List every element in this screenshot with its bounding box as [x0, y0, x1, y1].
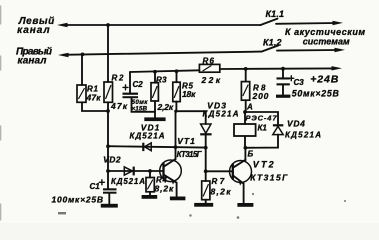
node C3 top [281, 67, 285, 71]
transistor VT1 [160, 160, 182, 182]
diode VD2 [124, 167, 132, 175]
wire VT1 emitter down [176, 183, 178, 197]
wire R3 bottom to ground [154, 101, 156, 117]
plus sign C2 [123, 85, 128, 90]
node R7 top [204, 169, 208, 173]
wire R1 drop from right channel [81, 54, 83, 85]
svg-text:К1.1: К1.1 [266, 9, 285, 19]
resistor R4 [149, 171, 151, 178]
node VD1 tap [106, 144, 110, 148]
wire top rail right [220, 67, 335, 70]
wire R5 drop [176, 71, 178, 82]
wire K1.2 output [277, 49, 338, 52]
svg-text:+24В: +24В [310, 74, 338, 86]
svg-text:R2: R2 [112, 74, 125, 83]
arrow to acoustic systems (top) [333, 21, 344, 25]
svg-text:КД521А: КД521А [285, 131, 321, 140]
svg-text:R7: R7 [212, 177, 225, 186]
resistor R2 [104, 82, 113, 102]
diode VD4 [273, 124, 283, 126]
svg-text:К1.2: К1.2 [263, 38, 282, 48]
ground VT1 emitter [170, 197, 186, 201]
resistor R1 [77, 85, 86, 102]
wire R3 drop [154, 72, 156, 83]
wire top rail left [130, 70, 199, 72]
wire K1.1 output [276, 22, 336, 25]
ground R4 [142, 195, 158, 199]
wire VD3 cathode down to VT2 base line [206, 135, 233, 171]
scan specks [58, 193, 346, 219]
ground R7 [194, 203, 213, 207]
contact K1.1 arm [261, 19, 278, 25]
resistor R7 [205, 171, 207, 181]
wire VT2 emitter down [243, 184, 245, 203]
node R1/R2 join [106, 109, 110, 113]
wire VD4 anode down to node B [245, 135, 278, 148]
capacitor C3 [282, 69, 284, 78]
scan edge marks [0, 6, 2, 220]
arrow right-channel input [58, 53, 69, 57]
wire node A to VD4 branch [245, 112, 278, 124]
svg-text:8,2к: 8,2к [211, 187, 232, 197]
svg-text:100мк×25В: 100мк×25В [52, 195, 104, 205]
svg-text:VD4: VD4 [287, 119, 305, 129]
svg-text:КТ315Г: КТ315Г [250, 172, 288, 182]
capacitor C2 [129, 72, 131, 93]
diode VD3 [201, 124, 211, 133]
resistor R8 [245, 69, 247, 82]
ground C3 [276, 95, 290, 98]
svg-text:С1: С1 [90, 182, 101, 191]
svg-text:VD2: VD2 [103, 155, 121, 165]
wire R2 drop from left channel [107, 25, 109, 82]
wire left-channel line [62, 24, 261, 26]
svg-text:КД521А: КД521А [130, 131, 165, 140]
wire R5 bottom to VD3 top [176, 102, 205, 124]
svg-text:К1: К1 [258, 123, 268, 132]
node R8 top [244, 67, 248, 71]
svg-text:канал: канал [18, 56, 48, 67]
transistor VT2 [230, 161, 252, 183]
svg-text:R3: R3 [156, 75, 167, 84]
node VD1 wire / VD3 junction [204, 146, 208, 150]
arrow to acoustic systems (bottom) [335, 48, 346, 52]
wire VD2 line to VT1 base [108, 170, 164, 172]
node A [243, 110, 247, 114]
node VT1 collector junction [174, 145, 178, 149]
ground C1 [101, 204, 118, 208]
wire C2 bottom to R3 leg [132, 98, 156, 112]
svg-text:КТ315Г: КТ315Г [177, 150, 203, 159]
capacitor C1 [103, 188, 117, 190]
svg-text:200: 200 [252, 91, 269, 101]
svg-text:2,2к: 2,2к [157, 102, 174, 112]
wire right-channel line [63, 52, 262, 55]
svg-text:50мк×25В: 50мк×25В [292, 89, 340, 99]
node R5 top [175, 69, 179, 73]
arrow +24V feed [332, 66, 343, 70]
relay K1 coil [244, 112, 246, 124]
contact K1.2 arm [262, 45, 279, 51]
resistor R6 [199, 64, 219, 72]
svg-text:47к: 47к [110, 101, 128, 111]
svg-text:КД521А: КД521А [203, 110, 239, 119]
svg-text:С3: С3 [294, 78, 305, 87]
node B [244, 146, 248, 150]
svg-text:А: А [246, 103, 253, 112]
svg-text:РЭС-47: РЭС-47 [246, 113, 278, 122]
wire VT1 collector up to R5 node [175, 111, 177, 159]
svg-text:22к: 22к [201, 75, 221, 85]
svg-text:С2: С2 [133, 80, 144, 89]
node right-channel to R1 tap [81, 53, 85, 57]
plus sign C1 [99, 180, 104, 185]
node R4 top [148, 169, 152, 173]
svg-text:×15В: ×15В [132, 106, 148, 113]
svg-text:VT2: VT2 [253, 160, 274, 170]
ground C2/R3 [144, 117, 165, 121]
node R5/VD3 corner [174, 110, 177, 113]
wire R1 bottom to R2 line [82, 102, 108, 111]
wire VD1 line [108, 146, 206, 147]
diode VD1 [145, 143, 152, 151]
svg-text:КД521А: КД521А [111, 177, 145, 186]
svg-text:18к: 18к [182, 89, 196, 99]
plus sign C3 [289, 76, 294, 81]
svg-text:47к: 47к [86, 93, 102, 103]
node left-channel to R2 tap [106, 23, 110, 27]
wire VT2 collector up to node B [244, 148, 246, 160]
svg-text:канал: канал [17, 25, 50, 36]
node R3 top [153, 70, 157, 74]
node VD2 tap [106, 169, 110, 173]
arrow left-channel input [57, 23, 68, 27]
wire input node vertical [107, 102, 109, 188]
svg-text:8,2к: 8,2к [155, 184, 174, 194]
ground VT2 emitter [237, 203, 253, 207]
svg-text:системам: системам [303, 36, 350, 46]
svg-text:VT1: VT1 [177, 136, 195, 146]
svg-text:Б: Б [248, 149, 254, 158]
resistor R3 [151, 83, 158, 101]
resistor R5 [173, 82, 180, 101]
